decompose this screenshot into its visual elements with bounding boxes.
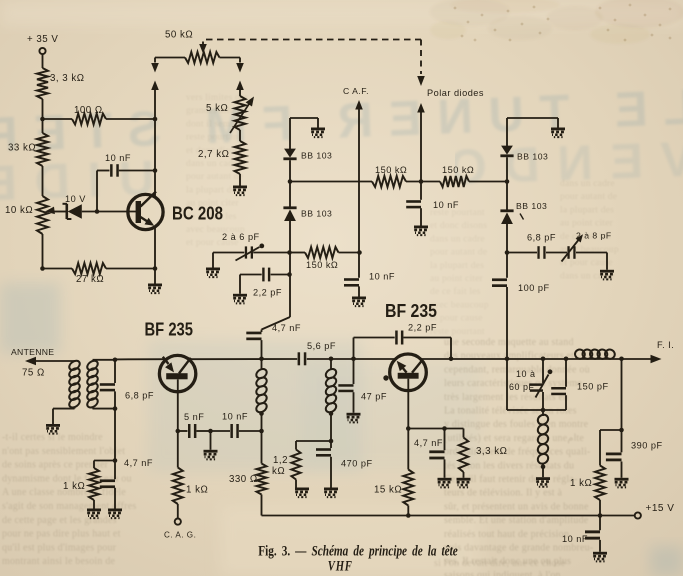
svg-text:sûr, et présentent un avis de: sûr, et présentent un avis de bonne [444, 501, 589, 512]
svg-text:la plupart des: la plupart des [186, 185, 240, 195]
svg-text:dans un cadre: dans un cadre [430, 234, 485, 244]
svg-text:2,2 pF: 2,2 pF [408, 323, 437, 333]
svg-text:une seconde maquette au stand: une seconde maquette au stand [444, 337, 574, 348]
svg-text:2 à 8 pF: 2 à 8 pF [576, 231, 612, 241]
svg-text:semble. Et une station d'ampli: semble. Et une station d'amplitude [444, 515, 589, 526]
svg-text:2,7 kΩ: 2,7 kΩ [198, 149, 229, 160]
svg-text:BF 235: BF 235 [145, 319, 194, 340]
svg-text:33 kΩ: 33 kΩ [8, 143, 36, 154]
svg-text:teurs de télévision. Il y est: teurs de télévision. Il y est à [444, 488, 562, 499]
svg-text:150 kΩ: 150 kΩ [306, 260, 338, 270]
svg-text:C A.F.: C A.F. [343, 86, 369, 96]
svg-text:+ 35 V: + 35 V [27, 34, 58, 45]
svg-text:5 kΩ: 5 kΩ [206, 103, 228, 114]
svg-text:4,7 nF: 4,7 nF [124, 458, 153, 468]
svg-text:390 pF: 390 pF [631, 441, 663, 451]
svg-text:47 pF: 47 pF [361, 392, 387, 402]
svg-text:75 Ω: 75 Ω [22, 368, 45, 379]
svg-text:10 kΩ: 10 kΩ [5, 205, 33, 216]
svg-text:et pour cause: et pour cause [430, 314, 483, 324]
svg-text:VHF: VHF [328, 558, 353, 574]
svg-text:BB 103: BB 103 [517, 152, 548, 162]
svg-text:1,2: 1,2 [273, 455, 288, 466]
svg-text:5 nF: 5 nF [184, 412, 204, 422]
svg-text:si l'on devait dire, une: si l'on devait dire, une ce chose [434, 558, 566, 569]
svg-text:réalisés tout haut de précisio: réalisés tout haut de précision [444, 529, 569, 540]
svg-text:pour autant de: pour autant de [186, 172, 243, 182]
svg-text:La tonalité télévisée selon ro: La tonalité télévisée selon roles [444, 406, 577, 417]
svg-text:des nouveaux amplificateurs et: des nouveaux amplificateurs et [444, 351, 574, 362]
svg-text:150 kΩ: 150 kΩ [442, 165, 474, 175]
svg-text:4,7 nF: 4,7 nF [414, 438, 443, 448]
svg-text:de soins après ce premier: de soins après ce premier [2, 460, 109, 471]
svg-text:150 pF: 150 pF [577, 382, 609, 392]
svg-text:de ce fait les: de ce fait les [430, 286, 481, 297]
svg-text:100 Ω: 100 Ω [74, 105, 103, 116]
svg-text:pour ne pas dire plus haut et: pour ne pas dire plus haut et [2, 529, 121, 540]
svg-text:330 Ω: 330 Ω [229, 474, 258, 485]
svg-text:10 à: 10 à [516, 369, 535, 379]
svg-text:+15 V: +15 V [646, 503, 675, 514]
svg-text:50 kΩ: 50 kΩ [165, 30, 193, 41]
svg-text:10 nF: 10 nF [369, 272, 395, 282]
svg-text:10 nF: 10 nF [105, 153, 131, 163]
svg-text:60 pF: 60 pF [509, 382, 534, 392]
svg-text:montrant ainsi le besoin de: montrant ainsi le besoin de [2, 556, 116, 567]
svg-text:avec beaucoup: avec beaucoup [430, 300, 489, 310]
svg-text:1 kΩ: 1 kΩ [63, 481, 85, 492]
svg-text:dans un cadre: dans un cadre [186, 159, 241, 169]
svg-text:10 nF: 10 nF [222, 412, 248, 422]
svg-text:saisons qui indiquent, à l'on: saisons qui indiquent, à l'on [444, 570, 561, 576]
svg-text:C. A. G.: C. A. G. [164, 531, 196, 540]
svg-text:n'ont pas sensiblement l'objet: n'ont pas sensiblement l'objet [2, 446, 125, 457]
svg-text:kΩ: kΩ [272, 466, 285, 477]
svg-text:4,7 nF: 4,7 nF [272, 323, 301, 333]
svg-text:reste pourtant: reste pourtant [430, 327, 485, 337]
svg-text:la plupart des: la plupart des [560, 205, 614, 215]
svg-text:et donc disons: et donc disons [430, 221, 487, 231]
svg-text:la plupart des: la plupart des [430, 261, 484, 271]
svg-text:6,8 pF: 6,8 pF [125, 391, 154, 401]
svg-text:pour autant de: pour autant de [560, 192, 617, 202]
svg-text:BF 235: BF 235 [385, 300, 437, 321]
svg-text:reste pourtant: reste pourtant [186, 133, 241, 143]
svg-text:3,3 kΩ: 3,3 kΩ [476, 446, 507, 457]
svg-text:BB 103: BB 103 [301, 209, 332, 219]
svg-text:100 pF: 100 pF [518, 283, 550, 293]
svg-text:10 nF: 10 nF [433, 200, 459, 210]
svg-text:pour autant de: pour autant de [430, 248, 487, 258]
svg-text:2 à 6 pF: 2 à 6 pF [222, 232, 260, 242]
svg-text:BB 103: BB 103 [516, 201, 547, 211]
svg-text:10 V: 10 V [65, 194, 86, 204]
svg-text:Polar diodes: Polar diodes [427, 88, 484, 98]
svg-text:1 kΩ: 1 kΩ [186, 485, 208, 496]
svg-text:6,8 pF: 6,8 pF [527, 233, 556, 243]
svg-text:au point citer: au point citer [560, 219, 614, 229]
svg-text:qu'il est plus d'images pour: qu'il est plus d'images pour [2, 542, 117, 553]
svg-text:dans un cadre: dans un cadre [560, 179, 615, 189]
svg-text:5,6 pF: 5,6 pF [307, 341, 336, 351]
svg-text:de cette page et les grandes: de cette page et les grandes [2, 515, 117, 526]
svg-text:150 kΩ: 150 kΩ [375, 165, 407, 175]
svg-text:puis davantage de grande nombr: puis davantage de grande nombreu- [444, 543, 593, 554]
svg-text:27 kΩ: 27 kΩ [76, 274, 104, 285]
svg-text:2,2 pF: 2,2 pF [253, 288, 282, 298]
svg-text:y distingue des foules bien mo: y distingue des foules bien montre [444, 419, 589, 430]
svg-text:ANTENNE: ANTENNE [11, 347, 54, 357]
svg-text:15 kΩ: 15 kΩ [374, 485, 402, 496]
svg-text:au point citer: au point citer [430, 274, 484, 284]
svg-text:et pour cause: et pour cause [560, 258, 613, 268]
svg-text:Fig. 3. — Schéma de principe d: Fig. 3. — Schéma de principe de la tête [258, 542, 457, 559]
svg-text:1 kΩ: 1 kΩ [570, 478, 592, 489]
svg-text:10 nF: 10 nF [562, 534, 588, 544]
svg-text:BC 208: BC 208 [172, 203, 223, 224]
svg-text:BB 103: BB 103 [301, 151, 332, 161]
svg-text:470 pF: 470 pF [341, 459, 373, 469]
svg-text:F. I.: F. I. [657, 340, 674, 350]
svg-text:3, 3 kΩ: 3, 3 kΩ [50, 73, 85, 84]
